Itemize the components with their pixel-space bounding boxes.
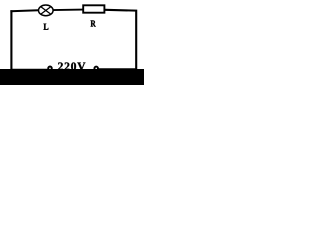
terminal (right, open circle) (94, 67, 98, 71)
wire: bottom-right segment from terminal to right corner (98, 68, 138, 70)
wire: top-left segment from corner to lamp (10, 10, 38, 11)
lamp L (circle with X) (39, 5, 54, 16)
resistor R (rectangle) (83, 5, 104, 12)
wire: left vertical side of loop (11, 11, 12, 70)
label 220V (supply voltage) (58, 62, 85, 70)
label L (44, 24, 49, 30)
wire: bottom-left segment (hidden under black strip) (11, 69, 48, 71)
label R (91, 20, 96, 26)
black redaction strip across bottom (0, 69, 144, 85)
terminal (left, open circle) (48, 67, 52, 71)
wire: segment from resistor to top-right corner and right vertical side (105, 10, 136, 70)
wire: segment between lamp and resistor (53, 9, 83, 12)
